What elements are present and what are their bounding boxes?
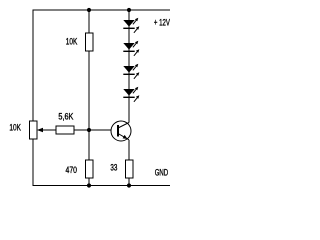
wire left rail upper	[32, 10, 34, 122]
wire 470 bottom lead	[88, 178, 90, 186]
potentiometer P1 wiper arrow	[37, 128, 56, 133]
wire LED chain / collector column	[128, 10, 130, 123]
wire 33 bottom lead	[128, 178, 130, 186]
resistor R3 470 body	[85, 160, 93, 178]
wire 10K bottom to base node	[88, 51, 90, 130]
transistor Q1 circle	[111, 121, 131, 141]
wire 5,6K to transistor base	[74, 129, 111, 131]
svg-text:10K: 10K	[9, 122, 21, 132]
resistor R4 33 body	[125, 160, 133, 178]
resistor R2 5,6K body	[56, 126, 74, 134]
node base junction	[87, 128, 91, 132]
svg-text:33: 33	[110, 163, 117, 173]
node junction top of 10K branch	[87, 8, 91, 12]
svg-text:10K: 10K	[66, 37, 78, 47]
svg-text:5,6K: 5,6K	[58, 112, 73, 122]
svg-text:+ 12V: + 12V	[154, 17, 170, 27]
node junction top of LED chain	[127, 8, 131, 12]
potentiometer P1 body	[29, 121, 37, 139]
node junction 470 to ground rail	[87, 183, 91, 187]
LED D2	[123, 41, 139, 56]
wire top +12V rail	[33, 9, 171, 11]
transistor Q1 collector diagonal	[118, 123, 129, 129]
resistor R1 10K body	[85, 33, 93, 51]
wire bottom ground rail	[33, 185, 171, 187]
wire base node down to 470	[88, 130, 90, 160]
svg-text:GND: GND	[155, 167, 169, 177]
wire 10K branch top	[88, 10, 90, 33]
LED D3	[123, 64, 139, 79]
transistor Q1 emitter diagonal with arrow	[118, 134, 129, 140]
LED D1	[123, 18, 139, 33]
wire left rail lower	[32, 139, 34, 186]
wire emitter to 33	[128, 140, 130, 160]
node junction 33 to ground rail	[127, 183, 131, 187]
transistor Q1 base bar	[117, 125, 119, 137]
LED D4	[123, 87, 139, 102]
svg-text:470: 470	[66, 165, 78, 175]
